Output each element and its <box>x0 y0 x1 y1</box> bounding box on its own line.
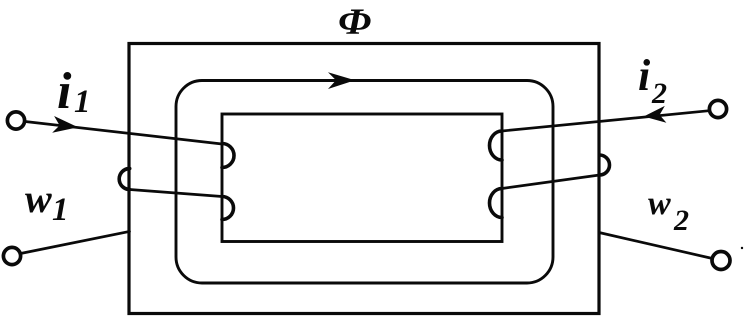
terminal 2 (lower left) <box>3 247 20 264</box>
svg-text:i: i <box>638 51 651 100</box>
svg-text:1: 1 <box>52 192 69 228</box>
wire: winding w2 exit to terminal 4 <box>599 233 713 259</box>
svg-text:Φ: Φ <box>338 1 371 42</box>
svg-text:1: 1 <box>74 84 91 120</box>
svg-text:i: i <box>57 63 72 120</box>
wire: w1 outer wrap to lower turn <box>130 190 222 197</box>
wire: terminal 3 to winding w2 top turn <box>502 111 708 131</box>
svg-text:2: 2 <box>673 204 689 237</box>
wire: w2 outer wrap to lower turn <box>502 175 600 189</box>
terminal 3 (upper right) <box>709 100 726 117</box>
speck (scan artifact near terminal 4) <box>741 247 743 249</box>
svg-text:w: w <box>648 185 671 222</box>
svg-text:2: 2 <box>651 77 667 110</box>
winding w2 turn loop (upper, inner edge) <box>490 131 503 160</box>
flux direction arrowhead <box>328 72 355 89</box>
current i2 arrowhead <box>644 106 667 123</box>
terminal 4 (lower right) <box>712 252 730 270</box>
flux path line <box>176 81 553 284</box>
core window (inner rectangle) <box>222 114 502 242</box>
winding w1 wrap loop (outer edge) <box>119 169 130 190</box>
wire: winding w1 exit to terminal 2 <box>21 232 130 254</box>
terminal 1 (upper left) <box>7 112 24 129</box>
winding w2 wrap loop (outer edge) <box>600 155 610 175</box>
wire: terminal 1 to winding w1 top turn <box>25 122 222 145</box>
winding w2 turn loop (lower, inner edge) <box>490 189 503 218</box>
winding w1 turn loop (upper, inner edge) <box>222 144 234 168</box>
svg-text:w: w <box>25 176 52 221</box>
core outer outline <box>129 44 599 314</box>
current i1 arrowhead <box>52 116 78 133</box>
winding w1 turn loop (lower, inner edge) <box>222 197 234 220</box>
